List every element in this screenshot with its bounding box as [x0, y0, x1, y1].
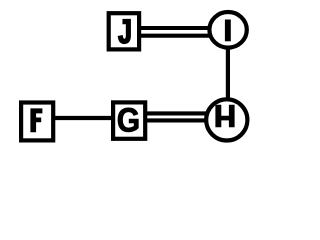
- wire J-I double line upper: [140, 26, 210, 30]
- node G label: [118, 108, 138, 132]
- wire I-H vertical line: [226, 48, 230, 100]
- node J box: [109, 13, 139, 49]
- wire F-G single line: [54, 116, 112, 120]
- node H circle: [206, 99, 247, 140]
- wire G-H double line upper: [146, 111, 208, 115]
- wire G-H double line lower: [146, 118, 208, 122]
- node F box: [21, 103, 53, 141]
- wire J-I double line lower: [140, 34, 210, 38]
- node J label: [119, 20, 131, 44]
- node I circle: [209, 12, 246, 48]
- node G box: [113, 102, 145, 138]
- node H label: [215, 105, 234, 128]
- node F label: [30, 108, 42, 132]
- node I label: [225, 20, 231, 42]
